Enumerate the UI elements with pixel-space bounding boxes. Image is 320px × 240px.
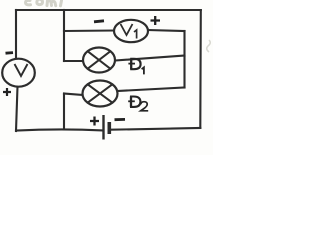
wire bottom right: battery to bottom-right corner — [111, 128, 200, 130]
wire D2 branch left (82.5,95)-(64,93.5) — [64, 94, 83, 96]
wire D1 branch right (115,60.5)-(184.5,55.5) — [115, 56, 185, 61]
wire V1 branch right (148,30)-(184.5,31) — [148, 30, 185, 31]
watermark smudge right — [207, 40, 211, 52]
wire D1 branch left (64,61)-(83,61) — [64, 60, 83, 62]
lamp D2 — [83, 81, 118, 107]
voltmeter V (left) — [2, 59, 35, 87]
voltmeter V1 (top) — [114, 20, 148, 42]
wire inner-right vertical (184.5,31)-(184.5,87.5) — [183, 31, 185, 88]
lamp D1 — [83, 48, 115, 73]
label D2 — [128, 96, 148, 110]
wire inner-left vertical upper (64,10)-(64,61) — [63, 10, 65, 61]
label plus of battery — [90, 117, 99, 126]
wire bottom left: corner to battery — [16, 129, 103, 130]
wire inner-left vertical lower (64,93.5)-(64,131) — [63, 94, 65, 130]
wire left upper: corner to voltmeter — [15, 10, 17, 59]
label minus of battery — [115, 118, 126, 121]
wire D2 branch right (184.5,87.5)-(117.5,91) — [118, 88, 185, 92]
label D1 — [128, 59, 144, 75]
battery positive plate (long) — [102, 115, 104, 140]
wire top (16,10)-(201,10) — [16, 9, 201, 11]
label minus of V1 — [94, 21, 104, 22]
watermark fragment "com" — [26, 0, 62, 6]
wire V1 branch left (64,31)-(114,30.5) — [64, 29, 114, 32]
label plus of V1 — [151, 16, 161, 25]
label plus of V — [3, 88, 11, 96]
label minus of V — [6, 51, 14, 54]
wire left lower: voltmeter to bottom corner — [16, 87, 18, 132]
battery negative plate (short thick) — [108, 122, 112, 134]
wire right outer x=201 — [199, 10, 202, 128]
